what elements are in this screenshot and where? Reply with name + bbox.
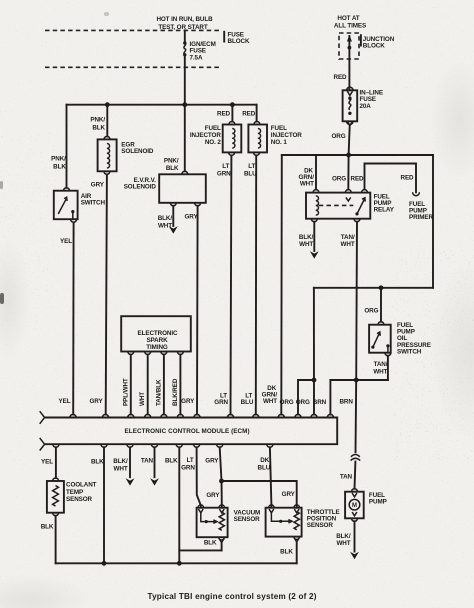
- EGR solenoid: [104, 136, 110, 139]
- svg-text:BLK/: BLK/: [299, 234, 314, 241]
- svg-text:BLK: BLK: [204, 540, 217, 547]
- wire GRY branch to TPS: [222, 481, 297, 508]
- svg-text:YEL: YEL: [41, 458, 53, 465]
- in-line fuse 20A: [347, 87, 353, 90]
- svg-text:BLK/: BLK/: [158, 215, 173, 222]
- svg-text:GRN: GRN: [214, 399, 228, 406]
- svg-text:BLK/RED: BLK/RED: [172, 378, 179, 406]
- svg-text:WHT: WHT: [373, 368, 387, 375]
- fuel pump relay: [313, 190, 319, 193]
- ground relay: [310, 251, 319, 258]
- svg-text:WHT: WHT: [158, 222, 172, 229]
- svg-text:YEL: YEL: [60, 238, 72, 245]
- svg-text:BLK: BLK: [41, 523, 54, 530]
- svg-text:GRN: GRN: [217, 170, 231, 177]
- svg-text:SWITCH: SWITCH: [397, 348, 422, 355]
- junction dots on bus: [105, 102, 110, 107]
- wire TAN/BLK to ECM: [163, 355, 165, 415]
- wire relay pin 3 to fuel pump primer: [365, 164, 417, 193]
- wire PPL/WHT to ECM: [130, 355, 132, 415]
- svg-text:ELECTRONIC CONTROL MODULE (ECM: ELECTRONIC CONTROL MODULE (ECM): [125, 428, 250, 435]
- svg-text:GRY: GRY: [205, 457, 219, 464]
- svg-text:20A: 20A: [360, 103, 372, 110]
- svg-text:GRY: GRY: [206, 492, 220, 499]
- air switch: [64, 188, 70, 191]
- svg-text:ORG: ORG: [332, 176, 346, 183]
- fuel pump primer terminal: [413, 192, 420, 195]
- svg-text:DK: DK: [260, 457, 269, 464]
- svg-text:LT: LT: [248, 163, 255, 170]
- svg-text:PNK/: PNK/: [51, 156, 66, 163]
- node ORG tap: [379, 285, 384, 290]
- EVRV solenoid: [182, 171, 188, 174]
- svg-text:SOLENOID: SOLENOID: [121, 148, 154, 155]
- svg-text:INJECTOR: INJECTOR: [190, 132, 221, 139]
- svg-text:HOT AT: HOT AT: [337, 15, 359, 22]
- wire BRN down to ECM: [329, 380, 331, 415]
- wire BLK coolant to bus: [55, 516, 57, 564]
- svg-text:BLU: BLU: [244, 170, 257, 177]
- fuel pump: [352, 489, 358, 492]
- wire BRN tie line y380: [330, 379, 388, 381]
- wire ORG to relay pin 2: [347, 155, 349, 190]
- svg-text:GRN: GRN: [181, 465, 195, 472]
- wire BLK/WHT to ground: [129, 447, 131, 477]
- svg-text:ORG: ORG: [364, 308, 378, 315]
- fuel injector no 2: [229, 122, 235, 125]
- svg-text:TEMP: TEMP: [66, 489, 83, 496]
- svg-text:FUEL: FUEL: [271, 125, 287, 132]
- svg-text:TAN: TAN: [141, 457, 154, 464]
- svg-text:LT: LT: [187, 457, 194, 464]
- throttle position sensor: [269, 505, 275, 508]
- wire bus at y155: [282, 154, 433, 156]
- wire ORG from fuse to node: [349, 126, 350, 155]
- svg-text:SOLENOID: SOLENOID: [124, 184, 157, 191]
- svg-text:WHT: WHT: [299, 241, 313, 248]
- svg-text:RED: RED: [401, 175, 415, 182]
- wire LT GRN injector 2 to ECM: [230, 155, 233, 414]
- svg-text:TAN/: TAN/: [374, 361, 388, 368]
- svg-text:GRY: GRY: [282, 491, 296, 498]
- svg-text:SENSOR: SENSOR: [66, 496, 93, 503]
- svg-text:BLOCK: BLOCK: [228, 38, 250, 45]
- fuse block (dashed): [45, 29, 222, 31]
- ground EVRV: [169, 226, 178, 233]
- wire GRY EGR to ECM: [106, 174, 107, 414]
- svg-text:M: M: [352, 503, 357, 509]
- svg-text:FUEL: FUEL: [205, 125, 221, 132]
- svg-text:HOT IN RUN, BULB: HOT IN RUN, BULB: [156, 16, 213, 23]
- svg-text:RED: RED: [217, 110, 231, 117]
- svg-text:WHT: WHT: [336, 540, 350, 547]
- wire bottom bus BLK: [56, 562, 297, 564]
- wire LT BLU injector 1 to ECM: [255, 155, 257, 414]
- wire YEL to coolant sensor: [55, 447, 57, 478]
- wire YEL air switch to ECM: [72, 222, 74, 414]
- wire BLK/WHT relay to ground: [313, 222, 315, 251]
- svg-text:PRIMER: PRIMER: [409, 214, 433, 221]
- wire PNK/BLK to EGR: [106, 105, 108, 137]
- ground fuel pump: [350, 552, 359, 559]
- wire BLK ECM to bus (2): [178, 447, 180, 563]
- wire GRY to sensors: [220, 447, 222, 507]
- wire WHT to ECM: [147, 355, 149, 415]
- svg-text:ALL TIMES: ALL TIMES: [334, 23, 366, 30]
- svg-text:PPL/WHT: PPL/WHT: [122, 378, 129, 406]
- svg-text:TAN/BLK: TAN/BLK: [155, 379, 162, 406]
- svg-text:NO. 2: NO. 2: [205, 139, 222, 146]
- wire to relay pin 1: [315, 155, 317, 190]
- svg-text:RED: RED: [351, 176, 365, 183]
- connector on TAN wire: [351, 455, 360, 457]
- wire RED to injector 2: [231, 105, 233, 122]
- wire GRY EVRV to ECM: [196, 206, 199, 415]
- node ORG jumper junction: [312, 378, 317, 383]
- svg-text:SWITCH: SWITCH: [81, 199, 106, 206]
- svg-text:GRY: GRY: [89, 398, 103, 405]
- svg-text:BLK: BLK: [53, 164, 66, 171]
- electronic spark timing module: [121, 316, 191, 351]
- wire LT GRN to vacuum sensor: [197, 447, 201, 507]
- svg-text:TIMING: TIMING: [146, 344, 168, 351]
- wire DK GRN/WHT down to ECM: [280, 155, 283, 415]
- wire TAN to ground: [154, 447, 156, 477]
- svg-text:ORG: ORG: [296, 399, 310, 406]
- wire PNK/BLK to EVRV: [184, 105, 186, 172]
- ECM bottom pins: [53, 444, 59, 447]
- svg-text:GRY: GRY: [185, 213, 199, 220]
- svg-text:COOLANT: COOLANT: [66, 481, 97, 488]
- svg-text:RED: RED: [242, 110, 256, 117]
- wire BLK/WHT fuel pump to ground: [354, 521, 356, 551]
- svg-text:BRN: BRN: [313, 399, 327, 406]
- vacuum sensor: [198, 505, 204, 508]
- svg-text:WHT: WHT: [300, 181, 314, 188]
- svg-text:BLOCK: BLOCK: [363, 43, 385, 50]
- wire BLK/WHT EVRV to ground: [172, 206, 174, 226]
- wire ORG down to oil pressure switch: [380, 288, 382, 322]
- wire ORG down to ECM: [313, 288, 315, 415]
- svg-text:BLU: BLU: [258, 465, 271, 472]
- svg-text:PNK/: PNK/: [90, 117, 105, 124]
- wire TAN/WHT switch output: [387, 356, 389, 380]
- fuel injector no 1: [254, 122, 260, 125]
- svg-text:TAN: TAN: [340, 474, 353, 481]
- wire PNK/BLK to air switch: [66, 105, 68, 188]
- fuel pump oil pressure switch: [378, 322, 384, 325]
- node TAN junction: [354, 378, 359, 383]
- wire junction block down, arrow up: [348, 36, 350, 90]
- wire RED to injector 1: [256, 105, 258, 122]
- svg-text:SENSOR: SENSOR: [307, 522, 334, 529]
- svg-text:LT: LT: [222, 163, 229, 170]
- svg-text:WHT: WHT: [114, 466, 128, 473]
- coolant temp sensor: [53, 478, 59, 481]
- svg-text:BLK: BLK: [280, 549, 293, 556]
- svg-text:YEL: YEL: [59, 398, 71, 405]
- svg-text:7.5A: 7.5A: [190, 54, 203, 61]
- svg-text:INJECTOR: INJECTOR: [271, 132, 302, 139]
- ECM box electronic control module: [45, 418, 338, 445]
- wire branch to vacuum sensor BLK: [179, 549, 221, 551]
- svg-text:RELAY: RELAY: [374, 206, 395, 213]
- svg-text:PNK/: PNK/: [164, 158, 179, 165]
- wire fuse to main bus: [184, 56, 186, 105]
- ground TAN: [150, 478, 159, 485]
- fuse IGN/ECM 7.5A: [184, 30, 186, 41]
- wire BLK ECM to bus: [103, 447, 105, 563]
- svg-text:BLK: BLK: [91, 458, 104, 465]
- svg-text:BRN: BRN: [339, 399, 353, 406]
- svg-text:WHT: WHT: [263, 398, 277, 405]
- svg-text:RED: RED: [334, 74, 348, 81]
- svg-text:BLK: BLK: [92, 125, 105, 132]
- svg-text:TAN/: TAN/: [341, 234, 355, 241]
- svg-text:PUMP: PUMP: [369, 499, 387, 506]
- svg-text:SPARK: SPARK: [146, 337, 168, 344]
- wire DK BLU to TPS: [270, 447, 272, 507]
- wire ORG right side: [432, 155, 434, 288]
- svg-text:ELECTRONIC: ELECTRONIC: [138, 330, 178, 337]
- svg-text:BLU: BLU: [241, 399, 254, 406]
- svg-text:BLK: BLK: [165, 457, 178, 464]
- svg-text:ORG: ORG: [280, 399, 294, 406]
- main top bus wire: [67, 104, 257, 106]
- svg-text:Typical TBI engine control sys: Typical TBI engine control system (2 of …: [148, 592, 317, 601]
- svg-text:ORG: ORG: [331, 133, 345, 140]
- svg-text:GRY: GRY: [91, 182, 105, 189]
- svg-text:NO. 1: NO. 1: [271, 139, 288, 146]
- svg-text:WHT: WHT: [341, 241, 355, 248]
- junction block (dashed): [339, 33, 359, 59]
- svg-text:SENSOR: SENSOR: [234, 516, 261, 523]
- ECM top pins: [70, 414, 76, 417]
- wire ORG jumper to ECM: [298, 380, 314, 415]
- svg-text:GRY: GRY: [181, 398, 195, 405]
- svg-text:BLK/: BLK/: [113, 458, 128, 465]
- wire BLK/RED to ECM: [179, 355, 181, 415]
- ground BLK/WHT: [126, 478, 135, 485]
- node ORG junction: [346, 153, 351, 158]
- svg-text:WHT: WHT: [139, 392, 146, 406]
- svg-text:BLK: BLK: [166, 165, 179, 172]
- wire TAN/WHT relay to fuel pump: [356, 222, 358, 453]
